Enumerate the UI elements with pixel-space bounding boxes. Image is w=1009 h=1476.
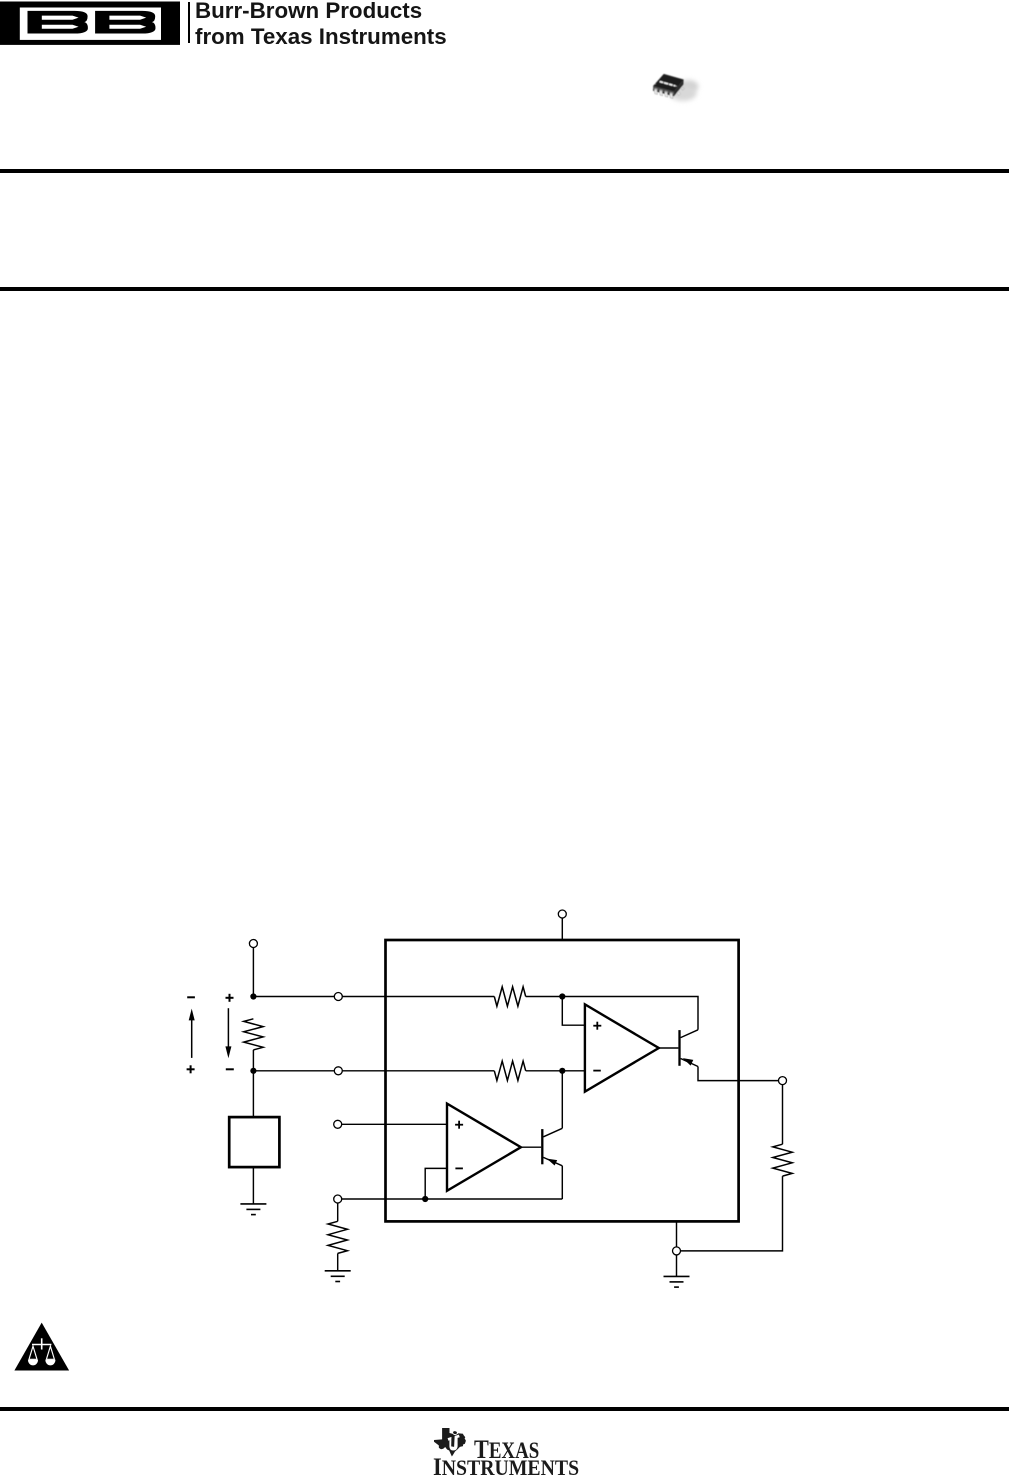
wire line1 to resistor — [342, 996, 494, 998]
TI wordmark — [474, 1434, 539, 1465]
node VIN- junction — [250, 1068, 256, 1074]
wire - input feedback — [425, 1168, 447, 1199]
resistor R1 — [494, 987, 525, 1006]
wire line4 — [341, 1198, 562, 1200]
load box — [229, 1117, 279, 1167]
letter B left — [28, 11, 88, 34]
transistor Q1 — [678, 1030, 680, 1066]
wire — [526, 996, 563, 998]
terminal V+ — [561, 918, 563, 940]
pin GND circle — [673, 1247, 681, 1255]
warning triangle (legal scales) — [14, 1323, 69, 1371]
wire to op-amp + input — [562, 997, 585, 1026]
wire line1 left — [253, 996, 334, 998]
terminal VIN+ — [249, 940, 257, 948]
annotation minus left — [187, 996, 195, 998]
annotation minus right — [226, 1068, 234, 1070]
terminal VO — [779, 1077, 787, 1085]
shadow — [679, 80, 699, 93]
body right side — [674, 80, 684, 97]
rule 2 — [0, 287, 1009, 291]
white marking — [659, 81, 677, 87]
transistor Q2 base wire — [521, 1146, 541, 1148]
label + — [455, 1121, 463, 1129]
header separator — [188, 2, 190, 44]
wire line3 — [341, 1123, 447, 1125]
pin 3 circle — [334, 993, 342, 1001]
annotation arrow up — [191, 1020, 193, 1058]
chip photo — [640, 60, 710, 115]
IC box U1 (INA139) — [386, 940, 739, 1221]
label - — [455, 1167, 463, 1169]
annotation plus left — [187, 1065, 195, 1073]
ground main — [676, 1255, 678, 1277]
ground load — [240, 1204, 266, 1215]
node B — [559, 1068, 565, 1074]
top face edge highlights — [653, 74, 683, 91]
wire box to gnd circle — [676, 1221, 678, 1247]
feet right row — [677, 92, 681, 96]
resistor RL — [773, 1144, 792, 1176]
label - — [593, 1070, 601, 1072]
op-amp U1b — [447, 1104, 521, 1191]
wire pin2 down — [337, 1203, 339, 1222]
wire line2 to resistor — [342, 1070, 494, 1072]
node VIN+ junction — [250, 993, 256, 999]
header text — [195, 0, 445, 50]
node A — [559, 993, 565, 999]
resistor R3 — [328, 1221, 347, 1253]
pin shoulders shading — [654, 88, 673, 94]
body top face — [653, 74, 683, 91]
node C — [422, 1196, 428, 1202]
label + — [593, 1022, 601, 1030]
wire — [252, 947, 254, 996]
wire VO down — [782, 1084, 784, 1144]
op-amp U1a — [585, 1004, 659, 1091]
transistor Q1 base wire — [659, 1047, 679, 1049]
transistor Q2 — [541, 1129, 543, 1164]
pin 4 circle — [334, 1067, 342, 1075]
letter B right — [95, 11, 155, 34]
wire load to ground — [252, 1167, 254, 1204]
bottom rule — [0, 1407, 1009, 1411]
wire — [252, 1050, 254, 1071]
TI texas map glyph — [434, 1428, 466, 1457]
pin 2 circle — [334, 1195, 342, 1203]
pin 1 circle — [334, 1120, 342, 1128]
wire line2 left — [253, 1070, 334, 1072]
annotation arrow down — [227, 1008, 229, 1046]
pins left row — [654, 88, 673, 98]
rule 1 — [0, 169, 1009, 173]
ground R3 — [325, 1271, 351, 1282]
wire — [526, 1070, 585, 1072]
body front side — [653, 86, 674, 94]
wire to load — [252, 1071, 254, 1117]
BB logo — [0, 0, 200, 60]
wire RL to gnd line — [680, 1176, 782, 1251]
wire R3 to ground — [337, 1253, 339, 1270]
annotation plus right — [226, 994, 234, 1002]
shunt resistor RS — [244, 1019, 263, 1050]
resistor R2 — [494, 1061, 525, 1080]
wire line1 right to collector — [562, 997, 698, 1030]
